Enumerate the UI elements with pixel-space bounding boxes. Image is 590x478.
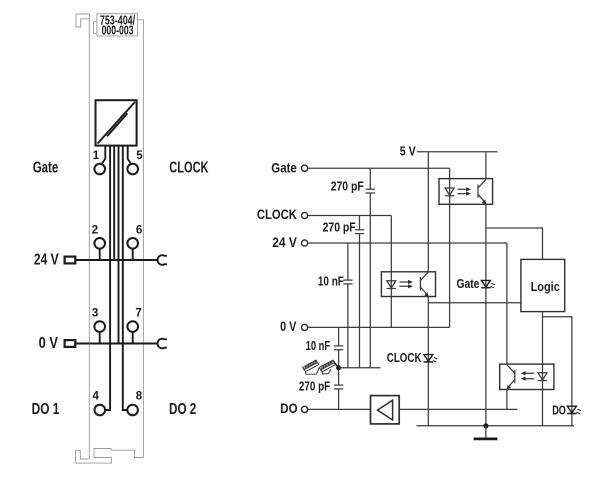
- svg-text:10 nF: 10 nF: [306, 339, 331, 353]
- capacitor C4 10 nF (0V chain): [306, 327, 344, 367]
- optocoupler U2 (Gate): [439, 179, 493, 205]
- terminal 1: [93, 150, 105, 174]
- wire: electronics block to terminal 1: [101, 146, 105, 165]
- wire: 24V input line: [308, 242, 507, 244]
- ground: [474, 426, 498, 439]
- terminal 7: [127, 308, 141, 344]
- svg-text:8: 8: [136, 391, 143, 403]
- input terminal CLOCK: [257, 206, 308, 222]
- optocoupler U4 (DO feedback): [500, 364, 554, 389]
- wire: U3 emitter branch to Logic left input: [428, 302, 521, 304]
- wire: 24V down to optocoupler U4 collector: [506, 243, 508, 364]
- input terminal 24 V: [272, 234, 308, 250]
- svg-text:CLOCK: CLOCK: [387, 351, 422, 365]
- svg-text:DO: DO: [552, 403, 566, 417]
- wire: 0V input line: [308, 326, 450, 328]
- wire: U4 emitter to DO line: [506, 390, 508, 410]
- terminal 8: [127, 391, 143, 416]
- LED D1 Gate status: [457, 277, 495, 291]
- terminal 3: [92, 308, 105, 344]
- wire: Gate line down through U2 LED to 0V: [449, 168, 451, 327]
- ordering label box 753-404/000-003: [94, 12, 138, 37]
- wire: 24V bus: [75, 259, 157, 261]
- wire: CLOCK input line: [308, 215, 391, 217]
- optocoupler U3 (CLOCK): [381, 272, 435, 297]
- terminal 5: [127, 150, 143, 174]
- wire: shield bus: [339, 367, 381, 369]
- svg-text:CLOCK: CLOCK: [257, 206, 297, 222]
- svg-text:DO 1: DO 1: [32, 401, 60, 418]
- svg-text:270 pF: 270 pF: [331, 180, 364, 194]
- input terminal Gate: [271, 159, 307, 175]
- wire: DO line to driver: [308, 408, 371, 410]
- wire: Gate input line: [308, 167, 450, 169]
- svg-text:270 pF: 270 pF: [299, 379, 331, 393]
- svg-text:Gate: Gate: [33, 160, 59, 177]
- svg-text:1: 1: [93, 150, 100, 162]
- terminal 4: [93, 391, 106, 416]
- LED D2 CLOCK status: [387, 351, 438, 365]
- svg-text:2: 2: [92, 225, 98, 237]
- svg-text:0 V: 0 V: [39, 335, 59, 352]
- wire: ground rail: [417, 425, 575, 427]
- svg-text:0 V: 0 V: [280, 318, 297, 334]
- logic block U5: [521, 259, 565, 311]
- svg-text:270 pF: 270 pF: [323, 220, 356, 234]
- box terminal 0V: [65, 340, 76, 347]
- svg-text:5: 5: [136, 150, 143, 162]
- module body outline: [76, 14, 144, 463]
- svg-text:Logic: Logic: [531, 280, 560, 294]
- wire: electronics block to 24V bus: [113, 146, 115, 260]
- terminal 6: [127, 225, 142, 261]
- wire: electronics block to terminal 5: [128, 146, 132, 165]
- wire: 5V to optocoupler U3 collector: [427, 152, 429, 272]
- svg-text:DO 2: DO 2: [169, 401, 196, 418]
- wire: electronics block to terminal 4: [105, 146, 110, 410]
- junction: shield node: [336, 365, 341, 370]
- wire: electronics block to terminal 8: [123, 146, 128, 410]
- svg-text:7: 7: [135, 308, 141, 320]
- wire: U2 emitter branch to Logic top: [486, 228, 543, 259]
- wire: 0V bus: [75, 343, 157, 345]
- wire: electronics block to 0V bus: [118, 146, 120, 344]
- svg-text:5 V: 5 V: [400, 144, 416, 159]
- box terminal 24V: [65, 257, 76, 264]
- DIN rail shield symbol: [303, 360, 339, 374]
- input terminal DO: [280, 400, 308, 416]
- capacitor C2 270 pF (CLOCK): [323, 216, 365, 368]
- cage clamp 24V: [158, 255, 167, 265]
- wire: 5V to optocoupler U2 collector: [485, 152, 487, 179]
- capacitor C3 10 nF (24V): [318, 243, 353, 368]
- svg-text:CLOCK: CLOCK: [169, 160, 209, 177]
- svg-text:24 V: 24 V: [272, 234, 297, 250]
- svg-text:24 V: 24 V: [34, 251, 59, 268]
- svg-text:4: 4: [93, 391, 100, 403]
- svg-text:DO: DO: [280, 400, 298, 416]
- wire: Logic bottom to U4 LED anode: [542, 312, 544, 426]
- cage clamp 0V: [158, 339, 167, 349]
- LED D3 DO status: [552, 403, 581, 417]
- wire: Logic output branch to DO status LED: [543, 317, 572, 426]
- wire: driver to U4 emitter node: [399, 408, 517, 410]
- wire: U2 emitter down: [485, 204, 487, 425]
- wire: 5V rail: [417, 151, 498, 153]
- svg-text:10 nF: 10 nF: [318, 274, 344, 288]
- capacitor C1 270 pF (Gate): [331, 168, 375, 368]
- electronics block U1: [96, 100, 137, 145]
- capacitor C5 270 pF (DO chain): [299, 368, 343, 410]
- input terminal 0 V: [280, 318, 308, 334]
- terminal 2: [92, 225, 105, 261]
- svg-text:6: 6: [136, 225, 142, 237]
- junction: ground node: [483, 423, 488, 428]
- svg-text:000-003: 000-003: [102, 23, 134, 38]
- wire: CLOCK line down to U3 LED: [390, 216, 392, 328]
- output driver A1: [371, 396, 400, 424]
- svg-text:Gate: Gate: [271, 159, 297, 175]
- wire: U3 emitter down through CLOCK status LED to ground rail: [427, 297, 429, 426]
- svg-text:3: 3: [92, 308, 98, 320]
- svg-text:Gate: Gate: [457, 277, 480, 291]
